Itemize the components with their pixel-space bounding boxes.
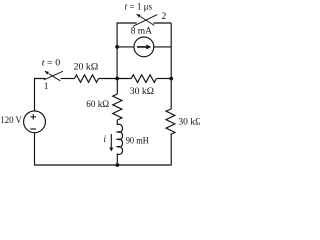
svg-text:30 kΩ: 30 kΩ xyxy=(178,118,200,128)
svg-text:90 mH: 90 mH xyxy=(126,136,149,146)
svg-text:i: i xyxy=(103,135,106,145)
svg-text:1: 1 xyxy=(44,82,49,92)
svg-text:120 V: 120 V xyxy=(0,116,22,126)
svg-text:8 mA: 8 mA xyxy=(131,27,152,37)
svg-text:2: 2 xyxy=(162,12,167,22)
svg-text:30 kΩ: 30 kΩ xyxy=(130,87,154,97)
svg-text:t = 1 μs: t = 1 μs xyxy=(125,2,153,12)
svg-text:60 kΩ: 60 kΩ xyxy=(86,100,109,110)
svg-text:t = 0: t = 0 xyxy=(42,59,61,69)
svg-text:20 kΩ: 20 kΩ xyxy=(74,63,99,73)
